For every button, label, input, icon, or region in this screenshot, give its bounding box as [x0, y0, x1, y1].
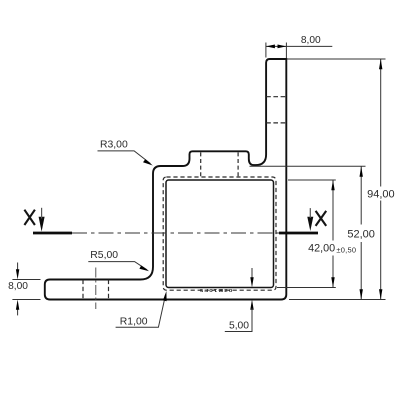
section line X-X dash-dot [72, 232, 279, 234]
hidden line bump left [200, 152, 202, 176]
hidden line bump right [237, 152, 239, 176]
section line thick end left [33, 232, 72, 235]
dim 42,00: arrows [331, 180, 334, 190]
dim 8,00 top: arrows [266, 45, 275, 49]
tiny marking text on hidden bottom edge [199, 287, 233, 292]
dim 8,00 left: extension lines [12, 279, 40, 281]
svg-text:5,00: 5,00 [229, 321, 249, 332]
svg-text:R5,00: R5,00 [90, 250, 118, 261]
svg-text:8,00: 8,00 [301, 35, 321, 46]
section arrow right [307, 217, 313, 231]
section label X left [24, 210, 35, 225]
dim 52,00: dimension line [360, 166, 362, 224]
svg-text:94,00: 94,00 [367, 188, 395, 200]
extension line top edge to 94 dim [287, 58, 386, 60]
dim 8,00 left: arrows [17, 263, 19, 271]
centerline flange hole [95, 268, 97, 310]
extension line pocket top to 52 dim [250, 165, 366, 167]
dim 94,00: dimension line [380, 59, 382, 187]
dim 5,00: upper arrow inside pocket [251, 268, 253, 279]
extension line bottom edge to 94 dim [289, 299, 386, 301]
dim 8,00 top: dimension line [266, 45, 332, 47]
part outline [45, 59, 286, 300]
hidden line flange hole left [82, 280, 84, 300]
svg-text:8,00: 8,00 [8, 281, 28, 292]
dim 52,00: arrows [360, 166, 363, 176]
leader R1,00 [116, 295, 166, 328]
section label X right [316, 211, 327, 226]
dim 8,00 top: extension lines [265, 43, 267, 58]
extension line inner bottom to 42 dim [277, 287, 336, 289]
section arrow left [39, 217, 45, 232]
leader R3,00 [98, 151, 151, 164]
svg-text:R1,00: R1,00 [120, 317, 148, 328]
hidden line leg hole upper [266, 96, 286, 98]
hidden line leg hole lower [266, 122, 286, 124]
inner pocket square (solid) [166, 180, 274, 288]
svg-text:03B10Γ5: 03B10Γ5 [199, 287, 233, 292]
hidden pocket square (dashed) [163, 177, 276, 290]
dim 42,00: dimension line [332, 180, 334, 241]
svg-text:±0,50: ±0,50 [336, 245, 356, 254]
svg-text:R3,00: R3,00 [100, 140, 128, 151]
extension line inner top to 42 dim [288, 179, 336, 181]
leader R5,00 [88, 262, 147, 270]
svg-text:52,00: 52,00 [347, 229, 375, 241]
section line thick end right [279, 232, 318, 235]
dim 5,00: lower arrow and leader [250, 300, 253, 310]
svg-text:42,00: 42,00 [308, 242, 335, 254]
dim 94,00: arrows [379, 59, 382, 69]
hidden line flange hole right [108, 280, 110, 300]
